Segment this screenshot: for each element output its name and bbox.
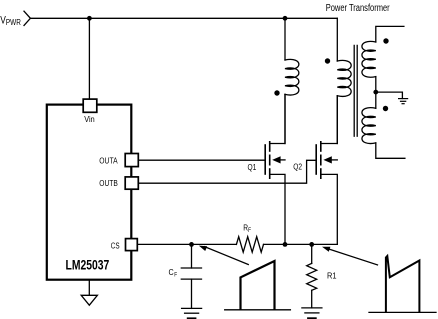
svg-text:R1: R1 (327, 272, 337, 281)
svg-text:OUTA: OUTA (99, 156, 118, 165)
svg-text:Power Transformer: Power Transformer (326, 3, 390, 14)
svg-text:LM25037: LM25037 (66, 257, 110, 273)
svg-text:Q2: Q2 (293, 163, 302, 172)
svg-text:CS: CS (111, 241, 120, 250)
svg-text:C: C (169, 268, 174, 277)
svg-text:F: F (174, 273, 177, 279)
svg-text:F: F (248, 228, 251, 234)
svg-text:Vin: Vin (84, 115, 94, 124)
svg-text:PWR: PWR (6, 18, 21, 27)
svg-text:OUTB: OUTB (99, 179, 118, 188)
svg-text:Q1: Q1 (248, 163, 257, 172)
